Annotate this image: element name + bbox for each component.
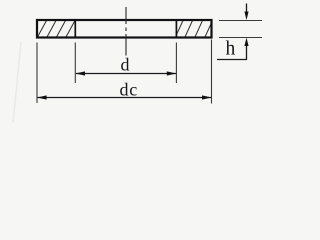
svg-text:d: d (121, 55, 130, 75)
svg-text:h: h (226, 39, 236, 60)
svg-text:dc: dc (120, 79, 139, 99)
